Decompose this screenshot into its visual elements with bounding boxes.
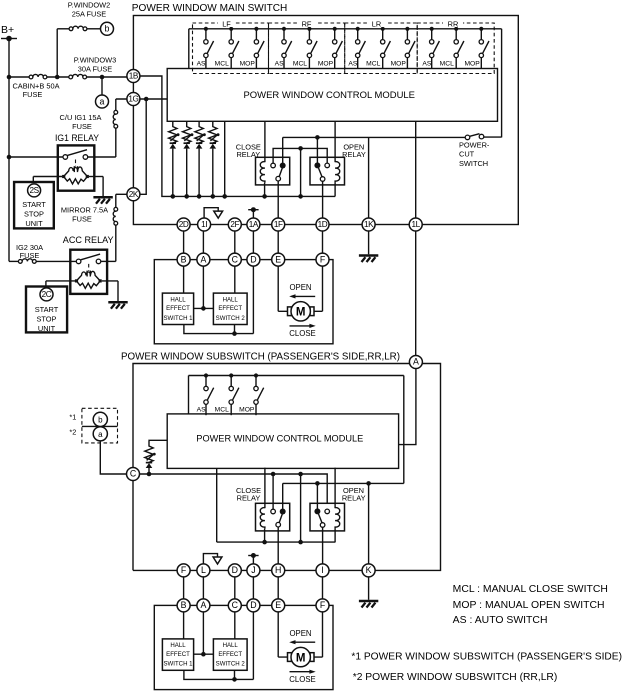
switch LR MCL [381, 27, 391, 69]
svg-text:CUT: CUT [459, 150, 475, 159]
connector a sub [93, 427, 107, 441]
svg-text:FUSE: FUSE [72, 215, 92, 224]
wire diode tails to bus [173, 149, 213, 197]
svg-text:STOP: STOP [24, 210, 44, 219]
connector A main [197, 253, 210, 266]
signal annotation at 1A [248, 207, 258, 218]
ground ACC relay [102, 281, 128, 309]
wire 1K to power-cut line [368, 137, 370, 218]
svg-text:MIRROR 7.5A: MIRROR 7.5A [61, 206, 108, 215]
svg-text:C: C [232, 600, 239, 610]
relay CLOSE sub [256, 468, 290, 565]
svg-text:AS: AS [348, 61, 357, 68]
switch RF MCL [307, 27, 317, 69]
svg-text:FUSE: FUSE [72, 122, 92, 131]
connector A sub [197, 599, 210, 612]
switch sub AS [204, 373, 214, 415]
svg-text:2K: 2K [129, 190, 139, 199]
label close relay sub [236, 486, 261, 503]
switch LR MOP [405, 27, 415, 69]
wire supply bus of sub switch bank [189, 376, 404, 414]
svg-text:F: F [320, 254, 326, 264]
svg-text:STOP: STOP [37, 315, 57, 324]
svg-text:A: A [200, 600, 206, 610]
svg-text:P.WINDOW2: P.WINDOW2 [68, 1, 111, 10]
svg-text:1D: 1D [318, 220, 328, 229]
relay ACC [9, 235, 116, 294]
connector D sub [247, 599, 260, 612]
fuse P.WINDOW2 25A [68, 1, 111, 31]
connector B main [177, 253, 190, 266]
svg-text:FUSE: FUSE [20, 251, 40, 260]
svg-text:b: b [105, 24, 110, 34]
svg-text:I: I [321, 565, 323, 575]
svg-text:P.WINDOW3: P.WINDOW3 [74, 56, 117, 65]
svg-text:POWER WINDOW CONTROL MODULE: POWER WINDOW CONTROL MODULE [196, 433, 363, 444]
node B+ [1, 24, 17, 41]
wire module pin to bus [224, 121, 226, 196]
wire lower bus [217, 540, 335, 545]
connector B sub [177, 599, 190, 612]
svg-text:a: a [100, 96, 105, 106]
wire relay commons to power-cut switch [283, 135, 466, 140]
connector 2K [127, 188, 140, 201]
switch RF AS [282, 27, 292, 69]
connector a [96, 77, 109, 108]
connector D main [247, 253, 260, 266]
svg-text:D: D [250, 254, 256, 264]
switch sub MOP [254, 373, 264, 415]
svg-text:1A: 1A [249, 220, 259, 229]
unit 2C START STOP UNIT [26, 287, 67, 334]
svg-text:AS: AS [197, 407, 206, 414]
relay CLOSE main [256, 122, 290, 219]
ground IG1 relay [89, 177, 113, 204]
switch RR MOP [479, 27, 489, 69]
svg-text:MCL: MCL [440, 61, 454, 68]
fuse MIRROR 7.5A [61, 194, 127, 261]
svg-text:B+: B+ [1, 24, 14, 36]
svg-text:1I: 1I [201, 220, 207, 229]
resistor R3 with diode [195, 121, 206, 148]
connector C main [228, 253, 241, 266]
label close relay main [236, 143, 261, 160]
svg-text:1F: 1F [274, 220, 283, 229]
connector C sub left [127, 468, 140, 481]
relay OPEN sub [310, 468, 345, 565]
connector 2F [228, 218, 241, 231]
connector E main [272, 253, 285, 266]
svg-text:RELAY: RELAY [236, 150, 260, 159]
svg-text:LF: LF [222, 20, 231, 29]
svg-text:MOP: MOP [391, 61, 407, 68]
wire bus to power-cut switch [501, 29, 503, 138]
svg-text:START: START [35, 305, 59, 314]
connector 1B [127, 70, 140, 83]
svg-text:F: F [181, 565, 187, 575]
svg-text:POWER-: POWER- [459, 140, 490, 149]
label open relay sub [342, 486, 366, 503]
label open relay main [342, 143, 366, 160]
wire A to sub module [399, 369, 416, 445]
fuse P.WINDOW3 30A [69, 56, 127, 80]
svg-text:C: C [232, 254, 239, 264]
svg-text:SWITCH: SWITCH [459, 159, 488, 168]
connector I sub row [316, 564, 329, 577]
pulse annotation at L [203, 554, 222, 564]
svg-text:2S: 2S [29, 186, 39, 195]
power window main switch outer box [132, 3, 519, 225]
switch LR AS [356, 27, 366, 69]
svg-text:C/U IG1 15A: C/U IG1 15A [60, 113, 102, 122]
connector 1A [247, 218, 260, 231]
wire relay commons to bank feed [283, 481, 404, 486]
wire sub bank feed down to common wire [403, 376, 405, 484]
connector A sub top [409, 356, 422, 369]
resistor R2 with diode [183, 121, 194, 148]
relay OPEN main [310, 122, 345, 219]
resistor R1 with diode [169, 121, 180, 148]
switch RR MCL [454, 27, 464, 69]
switch LF MOP [254, 27, 264, 69]
svg-text:L: L [201, 565, 206, 575]
resistor R5 with diode sub [145, 440, 167, 474]
connector C sub [228, 599, 241, 612]
dashed group box LR [345, 19, 418, 74]
motor unit sub door [154, 577, 333, 690]
wire supply bus of switch bank [189, 29, 502, 69]
wire sub close NO to C bus [272, 474, 274, 509]
wire sub NO join to lower bus [300, 474, 302, 542]
dashed group box RR [417, 19, 494, 74]
svg-text:*1: *1 [69, 413, 76, 422]
svg-text:1K: 1K [364, 220, 374, 229]
svg-text:A: A [200, 254, 206, 264]
svg-text:E: E [275, 600, 281, 610]
wire 1L to subswitch A [415, 231, 417, 356]
wire a to C [100, 441, 126, 474]
connector F main [316, 253, 329, 266]
svg-text:MOP: MOP [239, 407, 255, 414]
connector b [101, 22, 114, 35]
svg-text:RELAY: RELAY [342, 493, 366, 502]
svg-text:MOP: MOP [318, 61, 334, 68]
svg-text:b: b [98, 415, 103, 424]
motor unit main door [154, 231, 333, 344]
dashed group box RF [269, 19, 345, 74]
svg-text:a: a [98, 430, 103, 439]
switch labels main bank [197, 61, 481, 68]
fuse CABIN+B 50A [9, 74, 69, 99]
svg-text:F: F [320, 600, 326, 610]
svg-text:LR: LR [372, 20, 381, 29]
svg-text:B: B [181, 254, 187, 264]
svg-text:POWER WINDOW SUBSWITCH (PASSEN: POWER WINDOW SUBSWITCH (PASSENGER'S SIDE… [121, 351, 400, 362]
svg-text:AS: AS [197, 61, 206, 68]
svg-text:MOP : MANUAL OPEN SWITCH: MOP : MANUAL OPEN SWITCH [453, 600, 605, 611]
relay IG1 [9, 133, 116, 191]
svg-text:1G: 1G [128, 95, 138, 104]
wire module pin to lower bus [216, 468, 218, 542]
wire internal bus from 1B [140, 76, 335, 199]
connector 1K [362, 218, 375, 231]
svg-text:POWER WINDOW MAIN SWITCH: POWER WINDOW MAIN SWITCH [132, 3, 287, 14]
svg-text:MCL: MCL [366, 61, 380, 68]
svg-text:E: E [275, 254, 281, 264]
svg-text:FUSE: FUSE [23, 90, 43, 99]
connector J sub row [247, 564, 260, 577]
switch POWER-CUT [459, 134, 502, 168]
connector L sub row [197, 564, 210, 577]
wire 1G to module and 2K [116, 97, 167, 195]
svg-text:UNIT: UNIT [25, 219, 43, 228]
svg-text:*2: *2 [69, 428, 76, 437]
unit 2S START STOP UNIT [14, 182, 54, 228]
wire C bus [139, 472, 327, 509]
svg-text:D: D [250, 600, 256, 610]
svg-text:25A FUSE: 25A FUSE [72, 10, 107, 19]
svg-text:H: H [275, 565, 281, 575]
connector 1F [272, 218, 285, 231]
svg-text:AS : AUTO SWITCH: AS : AUTO SWITCH [453, 615, 548, 626]
switch labels sub bank [197, 407, 255, 414]
wire ACC coil to start stop unit [46, 281, 75, 287]
svg-text:2F: 2F [230, 220, 239, 229]
svg-text:B: B [181, 600, 187, 610]
svg-text:MCL : MANUAL CLOSE SWITCH: MCL : MANUAL CLOSE SWITCH [453, 584, 608, 595]
svg-text:MOP: MOP [240, 61, 256, 68]
switch RR AS [430, 27, 440, 69]
op module POWER WINDOW CONTROL MODULE main [167, 69, 497, 122]
switch RF MOP [333, 27, 343, 69]
switch sub MCL [229, 373, 239, 415]
fuse C/U IG1 15A [60, 99, 118, 157]
connector b sub [69, 408, 117, 443]
svg-text:MCL: MCL [293, 61, 307, 68]
svg-text:*1 POWER WINDOW SUBSWITCH (PAS: *1 POWER WINDOW SUBSWITCH (PASSENGER'S S… [351, 652, 622, 663]
svg-text:RELAY: RELAY [342, 150, 366, 159]
connector H sub row [272, 564, 285, 577]
svg-text:J: J [251, 565, 255, 575]
svg-text:1B: 1B [129, 72, 139, 81]
power window subswitch outer box [121, 351, 441, 570]
op module POWER WINDOW CONTROL MODULE sub [167, 414, 398, 469]
svg-text:RR: RR [448, 20, 459, 29]
svg-text:AS: AS [422, 61, 431, 68]
svg-text:ACC RELAY: ACC RELAY [63, 235, 114, 246]
svg-text:MCL: MCL [215, 407, 229, 414]
connector E sub [272, 599, 285, 612]
svg-text:RF: RF [302, 20, 312, 29]
legend abbreviations [453, 584, 608, 626]
svg-text:IG1 RELAY: IG1 RELAY [55, 133, 99, 143]
svg-text:C: C [130, 469, 137, 479]
signal annotation at J [248, 553, 258, 564]
connector 1G [127, 93, 140, 106]
connector D sub row [228, 564, 241, 577]
svg-text:UNIT: UNIT [38, 324, 56, 333]
svg-text:30A FUSE: 30A FUSE [78, 65, 113, 74]
svg-text:2C: 2C [42, 290, 52, 299]
connector 1I [198, 218, 211, 231]
svg-text:D: D [232, 565, 238, 575]
wire relay NO contacts join [273, 146, 327, 196]
pulse annotation at 1I [204, 208, 223, 218]
switch LF MCL [229, 27, 239, 69]
svg-text:RELAY: RELAY [237, 493, 261, 502]
ground at 1K [359, 231, 378, 262]
resistor R4 with diode [209, 121, 220, 148]
svg-text:AS: AS [275, 61, 284, 68]
connector F sub row [177, 564, 190, 577]
svg-text:A: A [413, 357, 419, 367]
wire IG1 coil to start stop unit [33, 177, 62, 183]
ground at K [359, 577, 378, 608]
svg-text:K: K [366, 565, 372, 575]
switch LF AS [204, 27, 214, 69]
wire B+ vertical feed [7, 39, 12, 262]
svg-text:2D: 2D [179, 220, 189, 229]
connector 1D [316, 218, 329, 231]
connector K sub row [362, 564, 375, 577]
svg-text:MCL: MCL [215, 61, 229, 68]
svg-text:START: START [22, 200, 46, 209]
svg-text:POWER WINDOW CONTROL MODULE: POWER WINDOW CONTROL MODULE [244, 90, 416, 101]
wire K to common wire [368, 483, 370, 564]
wire to P.WINDOW2 fuse [55, 29, 69, 79]
connector 2D [177, 218, 190, 231]
dashed group box LF [193, 19, 269, 74]
connector 1L [409, 218, 422, 231]
svg-text:*2 POWER WINDOW SUBSWITCH (RR,: *2 POWER WINDOW SUBSWITCH (RR,LR) [353, 672, 558, 683]
svg-text:1L: 1L [412, 220, 421, 229]
wire 1L to module [415, 121, 417, 218]
connector F sub [316, 599, 329, 612]
svg-text:MOP: MOP [464, 61, 480, 68]
